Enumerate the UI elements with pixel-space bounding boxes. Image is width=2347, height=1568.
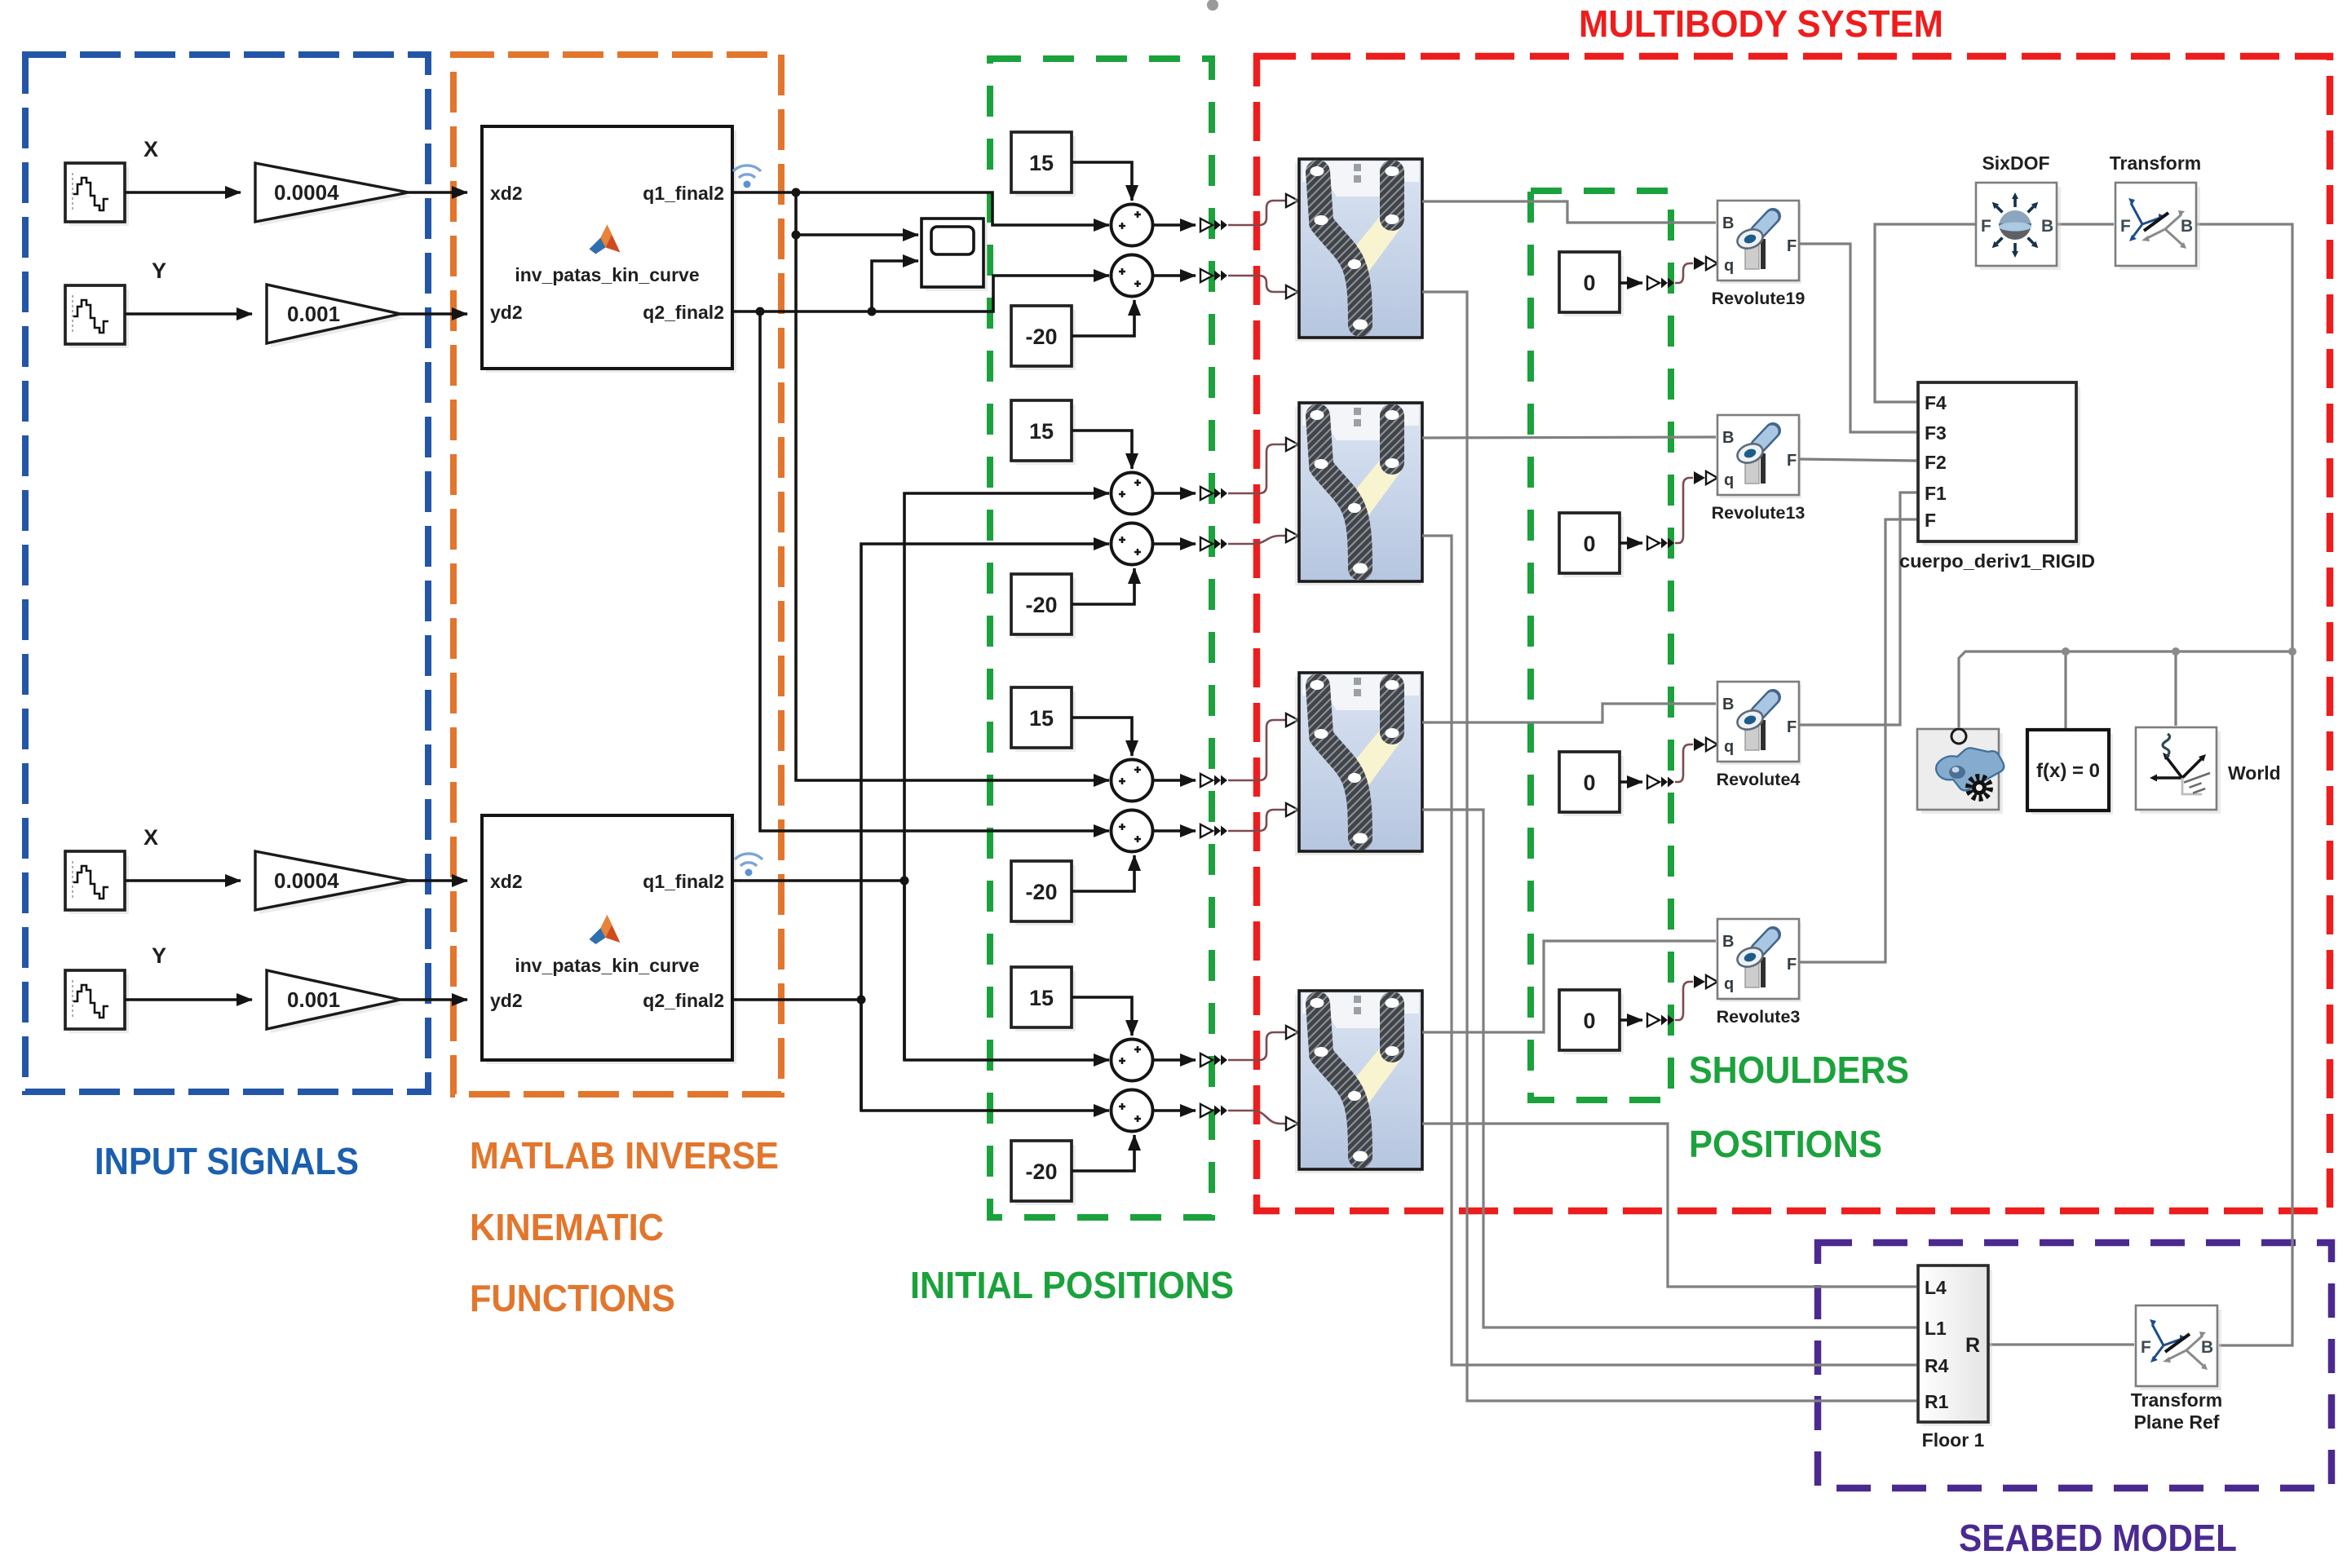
svg-text:INPUT SIGNALS: INPUT SIGNALS [95, 1140, 359, 1182]
physical wire to Revolute4 q [1675, 744, 1693, 782]
leg subsystem block Leg2 [1295, 403, 1422, 585]
sum block Sum41 [1112, 1040, 1153, 1081]
wire Cm20_3 to Sum32 bottom [1072, 855, 1134, 891]
signal generator X1 [69, 167, 129, 226]
svg-text:0.001: 0.001 [287, 987, 340, 1012]
signal conversion conv_Revolute13 [1647, 537, 1674, 550]
subsystem block Floor 1 [1922, 1270, 1992, 1426]
svg-text:-20: -20 [1025, 593, 1057, 617]
wire Leg4 B out to Revolute3 B [1422, 941, 1716, 1032]
physical wire to Leg2 port1 [1228, 444, 1285, 493]
junction [2062, 647, 2070, 656]
svg-text:SixDOF: SixDOF [1982, 152, 2049, 174]
wire C15_1 to Sum11 top [1072, 162, 1132, 201]
signal generator Y2 [69, 974, 129, 1033]
svg-text:Floor 1: Floor 1 [1922, 1429, 1985, 1451]
svg-text:0: 0 [1583, 771, 1595, 795]
svg-text:xd2: xd2 [490, 871, 523, 892]
svg-text:MATLAB INVERSE: MATLAB INVERSE [470, 1134, 779, 1177]
top cursor mark [1207, 0, 1218, 11]
wire Revolute19 F to cuerpo F3 [1799, 244, 1916, 432]
svg-text:F: F [2141, 1338, 2151, 1357]
svg-text:Y: Y [152, 258, 166, 283]
constant block C0_Revolute4 (value 0) [1563, 756, 1624, 816]
svg-text:R: R [1965, 1334, 1980, 1357]
constant block C0_Revolute19 (value 0) [1563, 256, 1624, 316]
svg-text:0: 0 [1583, 271, 1595, 295]
svg-text:yd2: yd2 [490, 302, 523, 323]
wire q1b channel to Sum21 [904, 493, 1109, 1060]
svg-text:15: 15 [1029, 986, 1054, 1010]
wire Leg4 foot to Floor L4 [1422, 1124, 1916, 1287]
gain block Gain3 0.0004 (value 0.0004) [259, 855, 413, 914]
wire bus to world [2174, 651, 2177, 726]
svg-text:0.001: 0.001 [287, 302, 340, 326]
region box SHOULDERS POSITIONS (green dashed) [1531, 191, 1671, 1100]
q port arrow+triangle Revolute3 [1694, 975, 1717, 988]
physical wire to Leg4 port1 [1228, 1032, 1285, 1060]
svg-text:World: World [2228, 762, 2281, 784]
wire C0_Revolute13 out [1620, 541, 1642, 545]
svg-text:F4: F4 [1925, 392, 1947, 413]
wire q2_final2 top to Sum12 [732, 276, 1109, 311]
signal conversion conv12 [1200, 269, 1227, 282]
wire Sum31 out [1152, 779, 1196, 782]
physical wire to Leg2 port2 [1228, 536, 1285, 544]
region box INPUT SIGNALS (blue dashed) [25, 55, 428, 1092]
svg-text:R1: R1 [1925, 1391, 1949, 1412]
revolute joint block Revolute13 [1717, 415, 1801, 498]
svg-text:Transform: Transform [2110, 152, 2201, 174]
constant block Cm20_1 (value -20) [1015, 310, 1076, 370]
signal conversion conv11 [1200, 219, 1227, 232]
svg-text:F3: F3 [1925, 422, 1947, 444]
constant block C15_2 (value 15) [1015, 404, 1076, 465]
junction [868, 307, 877, 316]
region box INITIAL POSITIONS (green dashed) [990, 59, 1212, 1217]
svg-text:F: F [2120, 217, 2131, 236]
wire X1 to Gain1 [125, 191, 241, 194]
wire Cm20_4 to Sum42 bottom [1072, 1135, 1134, 1171]
wire q2 tap down to Sum32 [760, 311, 1109, 831]
svg-text:F2: F2 [1925, 452, 1947, 473]
region box MULTIBODY SYSTEM (red dashed) [1257, 56, 2330, 1211]
svg-text:F: F [1981, 217, 1991, 236]
constant block C0_Revolute3 (value 0) [1563, 994, 1624, 1054]
leg port1 triangle [1286, 194, 1298, 207]
wire Revolute3 F to cuerpo F [1799, 519, 1916, 962]
wire Leg3 B out to Revolute4 B [1422, 704, 1716, 722]
svg-text:L1: L1 [1925, 1318, 1947, 1339]
svg-text:q2_final2: q2_final2 [643, 302, 724, 323]
svg-text:0.0004: 0.0004 [274, 180, 339, 205]
svg-text:-20: -20 [1025, 325, 1057, 349]
svg-text:FUNCTIONS: FUNCTIONS [470, 1277, 675, 1319]
constant block C0_Revolute13 (value 0) [1563, 517, 1624, 577]
wire Leg2 foot to Floor R4 [1422, 536, 1916, 1365]
wire SixDOF B to Transform F [2057, 223, 2114, 225]
junction [792, 231, 801, 240]
junction [857, 996, 866, 1005]
wire Y1 to Gain2 [125, 312, 252, 316]
wire Leg1 B out to Revolute19 B [1422, 201, 1716, 223]
signal generator Y1 [69, 289, 129, 348]
physical wire to Revolute13 q [1675, 478, 1693, 543]
svg-text:0: 0 [1583, 532, 1595, 556]
wire Leg1 foot to Floor R1 [1422, 292, 1916, 1401]
svg-text:inv_patas_kin_curve: inv_patas_kin_curve [515, 955, 699, 976]
scope block [926, 223, 988, 291]
leg port2 triangle [1286, 285, 1298, 298]
svg-text:INITIAL POSITIONS: INITIAL POSITIONS [910, 1264, 1234, 1306]
leg port2 triangle [1286, 1117, 1298, 1130]
svg-text:KINEMATIC: KINEMATIC [470, 1206, 664, 1248]
q port arrow+triangle Revolute19 [1694, 257, 1717, 270]
svg-text:B: B [2181, 217, 2193, 236]
sum block Sum42 [1112, 1090, 1153, 1132]
leg port1 triangle [1286, 438, 1298, 451]
wire Floor R to TPR F [1988, 1343, 2134, 1345]
wire Revolute13 F to cuerpo F2 [1799, 459, 1916, 461]
wire Sum22 out [1152, 542, 1196, 545]
wire C0_Revolute3 out [1620, 1018, 1642, 1022]
wire Cm20_2 to Sum22 bottom [1072, 568, 1134, 604]
region box SEABED MODEL (purple dashed) [1818, 1243, 2332, 1488]
wire Sum11 out [1152, 223, 1196, 227]
physical wire to Leg4 port2 [1228, 1111, 1285, 1124]
wire q2b channel to Sum42 [861, 1000, 1109, 1111]
svg-text:15: 15 [1029, 151, 1054, 175]
wire q1b channel to Sum41 [904, 881, 1109, 1060]
svg-text:Revolute3: Revolute3 [1717, 1007, 1801, 1027]
svg-text:Revolute19: Revolute19 [1712, 289, 1806, 308]
transform block Transform Plane Ref [2140, 1310, 2221, 1390]
wire Y2 to Gain4 [125, 998, 252, 1001]
svg-text:L4: L4 [1925, 1277, 1947, 1298]
wire SixDOF F to cuerpo F4 [1875, 224, 1976, 402]
signal conversion conv_Revolute19 [1647, 276, 1674, 289]
signal conversion conv22 [1200, 537, 1227, 550]
constant block C15_4 (value 15) [1015, 971, 1076, 1031]
wire Transform B to TPR B [2196, 224, 2292, 1345]
svg-text:X: X [144, 825, 158, 850]
svg-text:15: 15 [1029, 419, 1054, 444]
wire q2_final2 bottom stub [732, 998, 861, 1001]
signal conversion conv31 [1200, 774, 1227, 787]
wire Leg3 foot to Floor L1 [1422, 810, 1916, 1327]
svg-text:B: B [2041, 217, 2053, 236]
signal conversion conv_Revolute4 [1647, 775, 1674, 788]
physical wire to Leg1 port2 [1228, 276, 1285, 292]
svg-text:Revolute4: Revolute4 [1717, 770, 1801, 789]
svg-text:F: F [1925, 510, 1936, 531]
sum block Sum22 [1112, 523, 1153, 565]
svg-text:yd2: yd2 [490, 990, 523, 1011]
revolute joint block Revolute4 [1717, 682, 1801, 765]
svg-text:0.0004: 0.0004 [274, 868, 339, 893]
wire config bus [1959, 651, 2292, 727]
physical wire to Leg3 port2 [1228, 810, 1285, 831]
wire C0_Revolute19 out [1620, 281, 1642, 285]
signal conversion conv21 [1200, 487, 1227, 500]
svg-text:R4: R4 [1925, 1355, 1949, 1376]
gain block Gain1 0.0004 (value 0.0004) [259, 167, 413, 226]
leg port2 triangle [1286, 803, 1298, 816]
svg-text:Revolute13: Revolute13 [1712, 503, 1806, 523]
sum block Sum11 [1112, 205, 1153, 246]
MATLAB function block U2 bottom (inv_patas_kin_curve) [486, 819, 736, 1064]
sum block Sum31 [1112, 760, 1153, 802]
constant block C15_3 (value 15) [1015, 691, 1076, 752]
wire Gain3 to xd2b [409, 879, 467, 882]
junction [2288, 647, 2296, 656]
svg-text:SHOULDERS: SHOULDERS [1689, 1049, 1909, 1091]
svg-text:0: 0 [1583, 1009, 1595, 1033]
mechanism configuration block (camera+gear) [1921, 733, 2003, 814]
wire Sum12 out [1152, 274, 1196, 277]
wire Gain2 to yd2 [400, 312, 467, 316]
subsystem block cuerpo_deriv1_RIGID [1922, 386, 2080, 545]
revolute joint block Revolute19 [1717, 201, 1801, 284]
wire Sum21 out [1152, 492, 1196, 495]
gain block Gain2 0.001 (value 0.001) [271, 289, 404, 347]
sum block Sum12 [1112, 255, 1153, 297]
wire Cm20_1 to Sum12 bottom [1072, 300, 1134, 336]
svg-text:cuerpo_deriv1_RIGID: cuerpo_deriv1_RIGID [1899, 550, 2095, 572]
wire Gain4 to yd2b [400, 998, 467, 1001]
svg-text:B: B [2201, 1338, 2213, 1357]
svg-text:-20: -20 [1025, 1159, 1057, 1184]
q port arrow+triangle Revolute4 [1694, 738, 1717, 751]
svg-text:SEABED MODEL: SEABED MODEL [1959, 1517, 2237, 1559]
junction [756, 307, 765, 316]
wire C15_4 to Sum41 top [1072, 997, 1132, 1036]
svg-text:q1_final2: q1_final2 [643, 871, 724, 892]
leg port2 triangle [1286, 529, 1298, 542]
svg-text:inv_patas_kin_curve: inv_patas_kin_curve [515, 264, 699, 285]
gain block Gain4 0.001 (value 0.001) [271, 974, 404, 1033]
leg port1 triangle [1286, 1026, 1298, 1039]
svg-text:f(x) = 0: f(x) = 0 [2036, 760, 2100, 782]
leg subsystem block Leg1 [1295, 159, 1422, 342]
leg subsystem block Leg4 [1295, 991, 1422, 1173]
svg-text:Transform: Transform [2131, 1389, 2222, 1411]
wire q1 tap to Scope in1 [796, 192, 918, 235]
q port arrow+triangle Revolute13 [1694, 471, 1717, 484]
wifi viewer icon [739, 174, 755, 178]
solver configuration block f(x)=0 [2031, 734, 2113, 815]
signal conversion conv42 [1200, 1104, 1227, 1117]
wire Sum41 out [1152, 1058, 1196, 1062]
wire C15_2 to Sum21 top [1072, 431, 1132, 469]
revolute joint block Revolute3 [1717, 919, 1801, 1002]
signal generator X2 [69, 855, 129, 914]
wire q1_final2 bottom stub [732, 879, 904, 882]
physical wire to Revolute19 q [1675, 263, 1693, 283]
constant block C15_1 (value 15) [1015, 136, 1076, 197]
wire Revolute4 F to cuerpo F1 [1799, 492, 1916, 725]
wire q2 tap to Scope in2 [872, 261, 918, 311]
sum block Sum32 [1112, 811, 1153, 852]
constant block Cm20_2 (value -20) [1015, 578, 1076, 638]
physical wire to Revolute3 q [1675, 982, 1693, 1020]
wire q1 tap down to Sum31 [796, 235, 1109, 780]
wire q2b channel to Sum22 [861, 544, 1109, 1111]
wire C15_3 to Sum31 top [1072, 718, 1132, 756]
signal conversion conv32 [1200, 824, 1227, 837]
junction [792, 188, 801, 197]
svg-text:X: X [144, 137, 158, 161]
svg-text:MULTIBODY SYSTEM: MULTIBODY SYSTEM [1579, 2, 1943, 45]
svg-text:Y: Y [152, 943, 166, 968]
leg subsystem block Leg3 [1295, 673, 1422, 855]
wire q1_final2 top to Sum11 [732, 192, 1109, 225]
constant block Cm20_3 (value -20) [1015, 865, 1076, 925]
physical wire to Leg1 port1 [1228, 201, 1285, 225]
region box MATLAB INVERSE KINEMATIC FUNCTIONS (orange dashed) [453, 55, 781, 1094]
signal conversion conv41 [1200, 1053, 1227, 1067]
physical wire to Leg3 port1 [1228, 720, 1285, 780]
signal conversion conv_Revolute3 [1647, 1014, 1674, 1027]
svg-text:q1_final2: q1_final2 [643, 183, 724, 204]
svg-text:F1: F1 [1925, 483, 1947, 504]
sum block Sum21 [1112, 473, 1153, 515]
wire Gain1 to xd2 [409, 191, 467, 194]
wire C0_Revolute4 out [1620, 780, 1642, 784]
svg-text:q2_final2: q2_final2 [643, 990, 724, 1011]
wire Sum32 out [1152, 829, 1196, 833]
junction [2172, 647, 2180, 656]
leg port1 triangle [1286, 713, 1298, 727]
svg-text:xd2: xd2 [490, 183, 523, 204]
constant block Cm20_4 (value -20) [1015, 1145, 1076, 1205]
wifi viewer icon [740, 863, 757, 866]
svg-text:POSITIONS: POSITIONS [1689, 1123, 1882, 1165]
world frame block World [2140, 731, 2221, 814]
wire Leg2 B out to Revolute13 B [1422, 437, 1716, 438]
wire Sum42 out [1152, 1109, 1196, 1112]
svg-text:Plane Ref: Plane Ref [2134, 1411, 2220, 1433]
wire X2 to Gain3 [125, 879, 241, 882]
svg-text:15: 15 [1029, 706, 1054, 731]
wire bus to solver [2064, 651, 2066, 728]
MATLAB function block U1 top (inv_patas_kin_curve) [486, 130, 736, 373]
junction [900, 877, 909, 886]
svg-text:-20: -20 [1025, 880, 1057, 904]
